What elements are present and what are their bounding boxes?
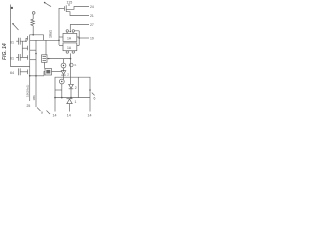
capacitor C3 plates xyxy=(19,68,21,75)
svg-text:18a1: 18a1 xyxy=(49,30,53,38)
bottom box outline xyxy=(55,77,90,111)
svg-text:2: 2 xyxy=(67,73,69,77)
svg-text:24: 24 xyxy=(90,5,94,9)
svg-text:1A: 1A xyxy=(67,37,72,41)
wire M3 source to rail right xyxy=(30,59,36,61)
node dot bus right xyxy=(35,75,37,77)
wire M2 source to rail right xyxy=(30,49,36,51)
wire M1 drain top horizontal xyxy=(30,35,44,41)
node dot rail right xyxy=(35,53,37,55)
circle symbol A xyxy=(61,63,66,68)
svg-text:6: 6 xyxy=(94,97,96,101)
transistor M4 channel xyxy=(29,68,31,75)
wire D3 down stub xyxy=(69,104,71,112)
transistor M2 gate lead xyxy=(22,47,27,49)
svg-text:19: 19 xyxy=(90,37,94,41)
transistor M5 lead to label xyxy=(68,4,70,6)
svg-text:21: 21 xyxy=(90,14,94,18)
diode D2 bar xyxy=(69,88,74,90)
wire left rail xyxy=(11,5,30,67)
circle symbol C inner dot xyxy=(61,81,62,82)
wire M5 drain to stub1 xyxy=(66,7,89,10)
node dot cell1 top xyxy=(70,31,71,32)
wire M5 source to stub2 xyxy=(66,12,89,16)
circle symbol C xyxy=(59,79,64,84)
node dot M6 output xyxy=(48,58,49,59)
transistor M1 channel xyxy=(29,35,31,41)
node dot bus x55 xyxy=(54,97,56,99)
wire box input lower xyxy=(59,44,63,46)
wire box outputs right vertical xyxy=(75,31,80,46)
circle symbol B small xyxy=(70,63,74,67)
wire x71 down to bottom box xyxy=(70,59,72,85)
small square component X1 xyxy=(45,69,52,76)
wire resistor top lead xyxy=(32,14,34,19)
wire box input upper xyxy=(59,36,63,38)
wire long horizontal bus y58 xyxy=(47,58,72,60)
bottom box bus xyxy=(55,97,90,99)
small box M6 inner xyxy=(43,57,47,61)
resistor R1 zigzag xyxy=(31,19,35,26)
lead line right of box xyxy=(92,93,95,96)
node dot resistor junction xyxy=(32,34,34,36)
terminal circle above resistor R1 xyxy=(32,12,35,15)
svg-text:14: 14 xyxy=(67,114,71,118)
capacitor C1 dash lead xyxy=(16,40,18,42)
wire square X1 to diode chain xyxy=(52,71,62,73)
box U1 cell1 rect xyxy=(63,33,77,41)
diode D3 bar top xyxy=(67,98,73,100)
lead line at wire end xyxy=(37,108,41,112)
svg-text:1Bb: 1Bb xyxy=(32,95,36,101)
svg-text:1A: 1A xyxy=(67,46,72,50)
wire M4 source down to bottom bus xyxy=(29,75,31,76)
wire C3 to M4 gate xyxy=(20,71,27,73)
lead line with dot on rail xyxy=(13,24,19,30)
svg-text:61: 61 xyxy=(10,57,14,61)
box U1 cell1 circle leads xyxy=(67,32,73,33)
node blob on rail xyxy=(11,7,13,9)
transistor M2 channel xyxy=(29,44,31,51)
node dot output xyxy=(78,37,80,39)
svg-text:2: 2 xyxy=(75,86,77,90)
box U1 cell1 circle a xyxy=(66,30,68,32)
svg-text:64: 64 xyxy=(10,71,14,75)
svg-text:1B(18a1): 1B(18a1) xyxy=(25,85,29,97)
transistor M5 channel xyxy=(65,5,67,11)
svg-text:a: a xyxy=(41,111,43,115)
node dot C1 gate xyxy=(25,41,26,42)
transistor M5 gate bar xyxy=(63,6,65,11)
circle symbol A inner dot xyxy=(63,65,64,66)
wire chain continues down right xyxy=(35,76,37,107)
wire stub3 into box cell xyxy=(69,25,71,31)
node dot at 59 40 xyxy=(58,40,60,42)
svg-text:14: 14 xyxy=(53,114,57,118)
svg-text:61: 61 xyxy=(10,40,14,44)
wire M6 bottom to square xyxy=(44,62,46,68)
svg-text:1: 1 xyxy=(75,100,77,104)
capacitor C2 plates xyxy=(19,54,21,61)
transistor M3 channel xyxy=(29,54,31,61)
wire chain M3 to M4 xyxy=(29,60,31,68)
wire M1 source to long horizontal xyxy=(30,39,59,41)
wire chain continues down left xyxy=(29,76,31,101)
wire bottom gate bus horizontal xyxy=(30,75,44,77)
wire vertical to small box xyxy=(45,40,47,55)
square X1 inner mark xyxy=(46,70,50,74)
diode D3 triangle up xyxy=(67,99,72,104)
wire circle C down to bus xyxy=(61,84,63,98)
svg-text:25: 25 xyxy=(27,104,31,108)
wire resistor bottom lead xyxy=(32,26,34,35)
lead line bottom left xyxy=(47,111,51,115)
wire stub3 xyxy=(70,24,89,26)
node dot bus left xyxy=(29,75,31,77)
wire right rail of chain xyxy=(35,40,37,76)
wire stub4 xyxy=(79,37,89,39)
transistor M3 gate bar xyxy=(27,55,29,60)
diode D1 bar xyxy=(61,74,66,76)
box U1 cell1 circle b xyxy=(72,30,74,32)
transistor M2 gate bar xyxy=(27,46,29,51)
wire C1 to gate xyxy=(20,38,27,41)
svg-text:27: 27 xyxy=(90,23,94,27)
wire circle A up stub xyxy=(63,59,65,64)
wire D1 down xyxy=(63,75,65,79)
node dot bus x71 xyxy=(70,97,72,99)
lead line arrow top center xyxy=(45,3,52,7)
box U1 cell2 circle b xyxy=(72,51,74,53)
node dot bus x62 xyxy=(61,97,63,99)
wire right stub down xyxy=(89,98,91,112)
svg-text:FIG. 14: FIG. 14 xyxy=(2,43,8,60)
wire D2 to bus xyxy=(70,89,72,98)
diode D1 triangle xyxy=(61,71,66,75)
svg-text:14: 14 xyxy=(88,114,92,118)
wire gate bus xyxy=(21,41,23,57)
svg-text:115: 115 xyxy=(67,1,73,5)
wire top T vertical xyxy=(58,8,60,45)
wire rail x78 in box xyxy=(77,77,79,97)
wire corner to transistor M5 gate xyxy=(59,8,64,10)
transistor M4 gate bar xyxy=(27,70,29,75)
wire chain M2 to M3 xyxy=(29,51,31,54)
wire box cell2 down xyxy=(70,53,72,58)
node dot D1 wire xyxy=(63,70,64,71)
wire up to small square xyxy=(44,72,45,76)
node dot right edge xyxy=(89,89,91,91)
transistor M1 gate bar xyxy=(27,36,29,41)
capacitor C1 plates xyxy=(19,38,21,45)
node dot junction x71 xyxy=(70,58,72,60)
small box M6 on bus xyxy=(42,55,48,63)
wire C2 to M3 gate xyxy=(20,56,27,58)
box U1 cell2 circle a xyxy=(66,51,68,53)
wire circle A down xyxy=(63,68,65,71)
wire chain M1 to M2 xyxy=(29,41,31,44)
box U1 cell2 rect xyxy=(63,43,77,51)
short wire left edge xyxy=(55,89,62,91)
diode D2 triangle xyxy=(69,84,74,88)
svg-text:b: b xyxy=(75,63,77,67)
capacitor C2 dash lead xyxy=(16,56,18,58)
